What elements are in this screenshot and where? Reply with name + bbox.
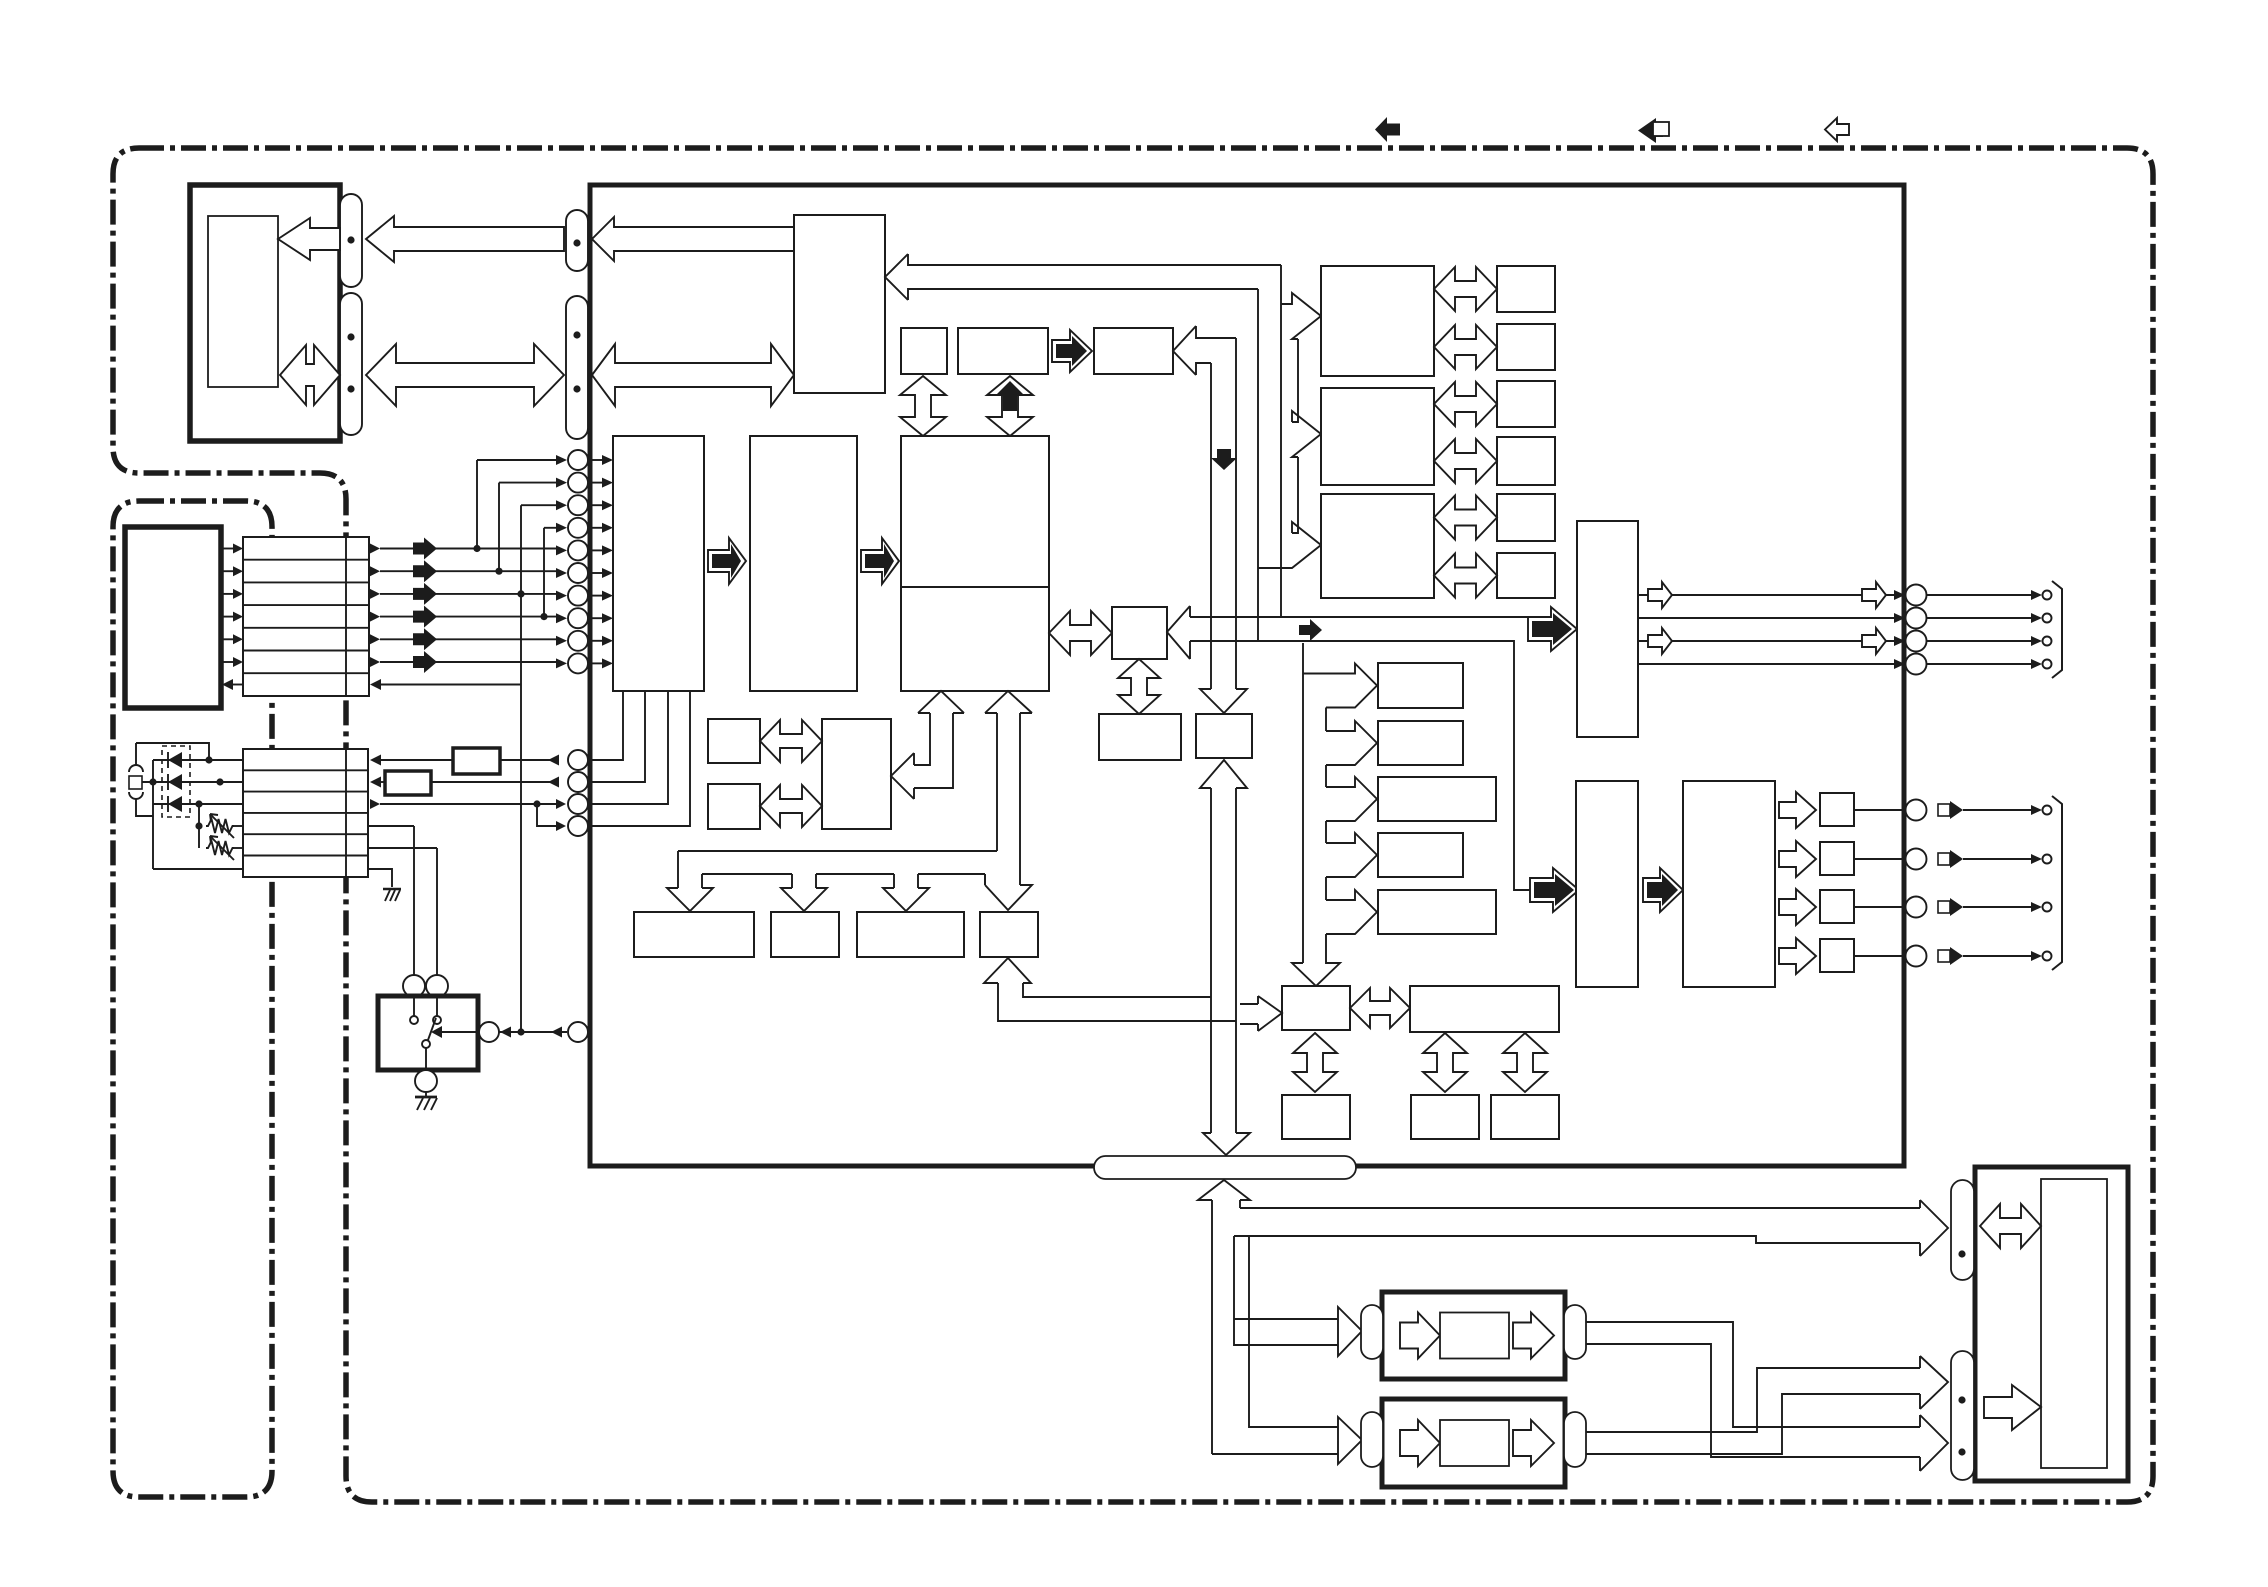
down arrow into row box 3 [883,888,929,911]
inner box CS1 [1440,1313,1509,1359]
box MM (medium center) [822,719,891,829]
IR receiver circuit wires [136,743,209,869]
tap arrow into KB1 [1303,664,1377,708]
down arrow into row box 2 [781,888,827,911]
hollow arrow R4 out 1 [1779,792,1816,828]
double arrow to memory box M5 [1434,496,1497,540]
divider in block B2 [901,586,1049,588]
variable resistor branch wire [198,804,200,848]
hollow arrow R4 out 4 [1779,938,1816,974]
inner arrow 2 CS1 [1513,1313,1554,1359]
connector bracket (T1 group) [2052,581,2062,678]
connector pill A2 [340,293,362,435]
black arrow marker on bus [1299,619,1322,641]
chain border: lower-left board region [113,501,272,1497]
SD controller box (bold, bottom-right) [1975,1167,2128,1481]
bus arrow block B1 to pill E1 [592,217,794,261]
key box KB1 [1378,663,1463,708]
double arrow to memory box M1 [1434,267,1497,311]
branch elbow wire 1 [476,460,478,549]
manifold bus to row boxes [678,851,997,888]
box K1 [1112,607,1167,659]
double arrow S1 to block B2 [900,376,946,436]
arrowheads into edge circles (T1 outputs) [1894,590,1905,600]
hollow arrow R4 out 3 [1779,889,1816,925]
card slot box CS2 (bold) [1382,1399,1565,1487]
driver glyph and wire to terminal 2 [1938,853,1950,865]
double arrow to memory box M4 [1434,439,1497,483]
left arrow into K1 with long bus shaft [1167,606,1190,659]
tap arrow into KB3 [1326,777,1377,821]
SD inner block [2041,1179,2107,1468]
driver glyph and wire to terminal 3 [1938,901,1950,913]
pill left CS1 [1361,1305,1383,1359]
block B1 (top interface block) [794,215,885,393]
switch output circle [479,1022,499,1042]
row box 1 [634,912,754,957]
nested bus elbow to card slot 1 [1234,1236,1338,1345]
input arrow card slot 1 [1338,1307,1362,1356]
diode D1 [168,752,182,768]
memory box M4 [1497,437,1555,485]
resistor VR1 [206,819,234,833]
terminal circles c1-c4 [568,750,588,770]
bus to SD controller pill 1 [1234,1208,1920,1243]
row3 wire out to circle [370,799,380,809]
branch elbow wire 4 [543,528,545,617]
row box 3 [857,912,964,957]
L-bus: up arrow into B2 and left arrow into MM [891,691,964,799]
pill left CS2 [1361,1412,1383,1467]
bus double arrow module A to pill E2 [366,344,564,406]
down arrow into row box 4 [985,874,1032,910]
connector bracket (R4 group) [2052,796,2062,970]
block R4 [1683,781,1775,987]
up arrow into J2 bottom with long bus to capsule [1200,760,1247,1133]
switch input circles [403,975,425,997]
level shifter box LS3 [1820,890,1854,923]
wire LS1 to edge circle [1854,809,1905,811]
tap trunk for key column [1302,643,1304,963]
hollow arrow into SD pill 2 (lower) [1920,1415,1948,1471]
box J1 [1099,714,1181,760]
resistor VR2 [206,841,234,855]
box P2 (wide) [1410,986,1559,1032]
box S1 [901,328,947,374]
tap arrow into block R1 [1281,293,1321,339]
module box B (bold, lower-left) [125,527,221,708]
up arrow into capsule from below [1198,1180,1250,1454]
ground symbol G2 [415,1096,437,1099]
diode pack dashed box [162,746,190,817]
arrowheads into circles and into block C1 [556,455,567,465]
terminal circles column on main edge [568,450,588,470]
output wires card slot 2 [1586,1368,1920,1454]
output wires from T1 [1638,594,1894,596]
double arrow MB1 to MM [760,720,822,762]
outlined black arrow C2 to B2 [861,538,899,584]
block C2 (tall mid) [750,436,857,691]
chain border: main board region [113,148,2153,1502]
switch contacts and lever [413,997,415,1016]
box MB1 (small left) [708,719,760,763]
tap arrow into block R3 [1258,522,1321,568]
down arrow into J2 from bus [1200,689,1247,713]
memory box M6 [1497,553,1555,598]
box J2 [1196,714,1252,758]
up arrow into row box 4 from right bus [984,958,1236,1021]
module box A (top-left bold) [190,185,340,441]
level shifter box LS2 [1820,842,1854,875]
block R1 [1321,266,1434,376]
bus vertical trunk V1258 [1257,289,1259,641]
down arrow into box P1 [1292,934,1340,986]
connector table T1 [243,537,369,696]
inner arrow 1 CS1 [1400,1313,1440,1359]
inner arrow 1 CS2 [1400,1420,1440,1466]
inner box CS2 [1440,1420,1509,1466]
block B2 (big center) [901,436,1049,691]
hollow arrow into SD pill 2 (upper) [1920,1356,1948,1409]
box P1 [1282,986,1350,1030]
tap bracket KB3-KB4 [1325,821,1327,843]
tap bracket KB4-KB5 [1325,877,1327,900]
memory box M3 [1497,381,1555,427]
box S2 [958,328,1048,374]
block R3 [1321,494,1434,598]
wire LS2 to edge circle [1854,858,1905,860]
box P2b [1411,1095,1479,1139]
pill right CS1 [1564,1305,1586,1359]
table T1 left row arrows [221,548,233,550]
riser wires from circles into C1 bottom [589,691,690,826]
key box KB4 [1378,833,1463,877]
tap bracket R2-R3 [1292,457,1298,533]
box S3 [1094,328,1173,374]
SD pill 1 [1951,1180,1974,1280]
hollow arrow glyphs on T1 output wires [1648,582,1672,608]
ground symbol G1 [383,888,401,891]
inner arrow 2 CS2 [1513,1420,1554,1466]
double arrow to memory box M3 [1434,382,1497,426]
box MB2 (small left) [708,784,760,829]
inner block of module A [208,216,278,387]
vertical bus: B2 to row box 4 [985,691,1032,885]
vertical bus V1236 [1235,338,1237,689]
legend arrow 1 (solid) [1375,117,1400,142]
key box KB3 [1378,777,1496,821]
outlined black arrow C1 to C2 [708,538,746,584]
input arrow card slot 2 [1338,1417,1362,1464]
double arrow S2 to block B2 with black up arrow [987,376,1033,436]
resistor box RA on row wire [377,759,453,761]
double arrow to memory box M6 [1434,554,1497,598]
card slot box CS1 (bold) [1382,1292,1565,1379]
bus wire y617 to T1 [1190,616,1528,618]
double arrow inside module A [280,345,340,405]
branch wire to circle c4 [537,804,556,826]
resistor box RB on row wire [377,781,385,783]
connector pill E2 (main edge) [566,296,588,439]
wire LS4 to edge circle [1854,955,1905,957]
double arrow B2 to K1 [1049,611,1112,655]
double arrow SD pill1 to inner [1980,1204,2041,1248]
output wires card slot 1 [1586,1322,1920,1457]
table T1 row7 arrow out to module B [233,684,243,686]
arrow inside module A to inner block [278,218,340,260]
level shifter box LS1 [1820,793,1854,826]
row wires through diodes [153,759,243,761]
branch elbow wire 3 (long, to switch) [520,505,522,1032]
block T2 (tall) [1576,781,1638,987]
down arrow into row box 1 [667,888,713,911]
memory box M1 [1497,266,1555,312]
tap bracket KB1-KB2 [1325,708,1327,732]
row6 wire to ground [153,869,392,887]
nested bus elbow to card slot 2 [1212,1236,1338,1454]
arrow SD pill2 to inner [1984,1385,2041,1430]
row5 wire to switch circle [368,847,437,849]
memory box M2 [1497,324,1555,370]
row4 wire to switch circle [368,825,414,827]
double arrow P2 down left [1423,1033,1467,1092]
key box KB5 [1378,890,1496,934]
outlined black arrow into T2 [1530,868,1579,912]
tap bracket KB2-KB3 [1325,765,1327,787]
double arrow to memory box M2 [1434,325,1497,369]
bus vertical trunk V1281 [1280,265,1282,617]
connector table T2 [243,749,368,877]
row7 feed wire from bus [381,684,521,686]
double arrow K1 down to J1 [1118,659,1160,714]
bus wire y643 with branch down to T2 [1190,641,1530,890]
tap arrow into KB4 [1326,833,1377,877]
connector pill E1 (main edge) [566,210,588,271]
double arrow P1 to P2 [1350,988,1410,1028]
outlined black arrow T2 to R4 [1643,868,1683,912]
tap arrow into KB2 [1326,721,1377,765]
diode D3 [168,796,182,812]
block C1 (tall left) [613,436,704,691]
IR sensor pins [129,765,143,772]
block T1 (tall) [1577,521,1638,737]
outlined black arrow into T1 [1528,607,1577,651]
branch elbow wire 2 [498,483,500,572]
table T1 right row arrows [370,544,380,554]
capsule connector on main box bottom [1094,1156,1356,1179]
connector pill A1 [340,194,362,287]
wire switch to main edge [499,1031,567,1033]
box P2c [1491,1095,1559,1139]
level shifter box LS4 [1820,939,1854,972]
tap arrow into block R2 [1292,411,1321,457]
solid fat arrows on rows [413,538,437,560]
switch ground circle [425,1048,427,1069]
double arrow P1 down [1293,1033,1337,1092]
arrow into P1 left from bus [1240,996,1282,1031]
wire LS3 to edge circle [1854,906,1905,908]
hollow arrow into SD pill 1 [1920,1200,1948,1256]
row box 4 [980,912,1038,957]
output wires to terminals (T1 group) [1927,594,2031,596]
row box 2 [771,912,839,957]
double arrow P2 down right [1503,1033,1547,1092]
vertical bus V1211 [1210,363,1212,689]
box P1b [1282,1095,1350,1139]
pill right CS2 [1564,1412,1586,1467]
double arrow MB2 to MM [760,785,822,827]
bus double arrow pill E2 to block B1 [592,344,794,406]
tap bracket R1-R2 [1292,339,1298,422]
block R2 [1321,388,1434,485]
edge circle for switch line [568,1022,588,1042]
hollow left arrow from bus into S3 [1173,326,1236,375]
diode D2 [168,774,182,790]
driver glyph and wire to terminal 4 [1938,950,1950,962]
switch box (bold) [378,996,478,1070]
legend arrow 3 (hollow) [1825,118,1849,141]
long hollow left arrow into B1 with elbow bus [885,254,1281,300]
key box KB2 [1378,721,1463,765]
outlined black arrow S2 to S3 [1052,330,1092,372]
main board outline box [590,185,1904,1166]
legend arrow 2 (solid with white box) [1638,118,1656,143]
tap arrow into KB5 [1326,890,1377,934]
memory box M5 [1497,494,1555,541]
driver glyph and wire to terminal 1 [1938,804,1950,816]
SD pill 2 [1951,1351,1974,1480]
hollow arrow R4 out 2 [1779,841,1816,877]
black down arrow marker on bus [1211,449,1237,470]
row wires to circle column [380,548,556,550]
bus arrow main board to module A [366,216,564,262]
down arrow into capsule [1203,1133,1250,1155]
